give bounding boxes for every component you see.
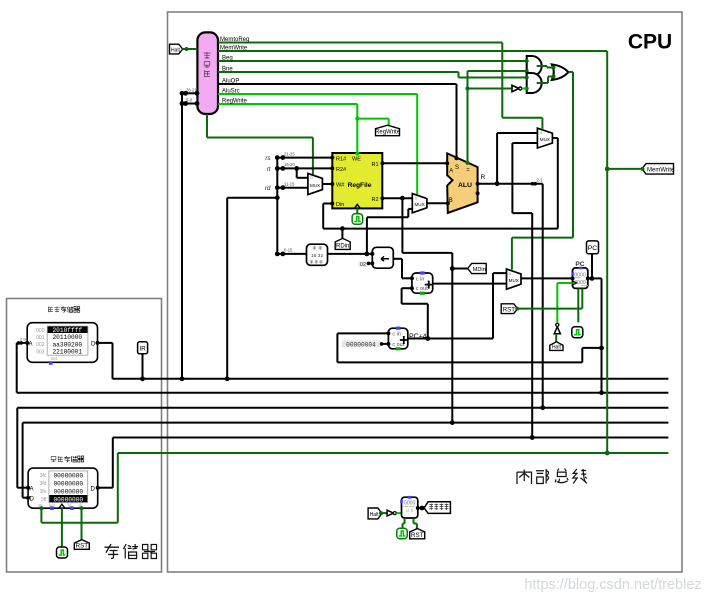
wire PCsrc mux out to PC (521, 277, 573, 279)
svg-text:001: 001 (36, 335, 45, 341)
sign extender 16-32 (307, 244, 328, 265)
wire counter reset (414, 518, 417, 529)
svg-text:MUX: MUX (509, 278, 519, 283)
svg-text:rd: rd (265, 185, 271, 192)
wire RAM clr to RST (81, 508, 83, 539)
svg-text:RST: RST (76, 542, 89, 549)
svg-text:00000000: 00000000 (53, 480, 83, 487)
wire OR out (branch taken) (512, 72, 573, 270)
wire imm up to B mux in1 (367, 209, 412, 254)
wire counter clock (403, 518, 405, 529)
constant 02 (shift amount) (359, 261, 372, 268)
svg-text:16-20: 16-20 (284, 162, 295, 167)
svg-text:rs: rs (265, 155, 270, 162)
wire AND2 out to OR (537, 75, 556, 84)
svg-text:RST: RST (411, 532, 424, 539)
adder PC+4 (386, 327, 426, 351)
svg-text:R2#: R2# (336, 167, 347, 173)
label 数据存储器 (data memory title) (51, 456, 84, 462)
node rs row (265, 151, 332, 162)
pin RST label (PC) (501, 304, 519, 314)
wire RegDst mux out to W# (322, 183, 332, 185)
svg-text:=: = (466, 167, 470, 173)
svg-text:R: R (481, 174, 486, 181)
wire shifter out to branch adder A (393, 259, 412, 279)
svg-text:000: 000 (36, 328, 45, 334)
AND gate (Bne & !zero) (525, 73, 542, 93)
svg-text:21-25: 21-25 (284, 151, 295, 156)
svg-text:MemWrite: MemWrite (220, 46, 248, 52)
pin Halt label (counter) (368, 508, 383, 519)
svg-text:RegWrite: RegWrite (375, 130, 401, 136)
svg-text:Bne: Bne (222, 67, 233, 73)
wire PC Q output (588, 276, 604, 395)
svg-text:002: 002 (36, 342, 45, 348)
svg-text:20110000: 20110000 (52, 334, 82, 341)
svg-text:R1#: R1# (336, 157, 347, 163)
svg-text:A: A (449, 169, 453, 175)
node rd row (265, 182, 308, 193)
svg-text:MemWrite: MemWrite (647, 167, 675, 173)
wire MemtoReg (218, 43, 542, 129)
control unit 控制器 (197, 32, 218, 114)
svg-text:c in: c in (392, 332, 400, 338)
svg-text:003: 003 (36, 349, 45, 355)
svg-text:ALU: ALU (458, 182, 472, 189)
wire bus row 4 (store data) (23, 422, 669, 424)
clock symbol (counter) (397, 528, 408, 539)
wire Beq (218, 60, 527, 62)
wire PC clock (577, 288, 579, 322)
svg-text:aa300200: aa300200 (52, 341, 82, 348)
wire control input column (180, 93, 185, 381)
probe RegWrite (375, 125, 401, 136)
label 存储器 (memory) (105, 544, 157, 559)
frame: CPU block (168, 12, 683, 572)
svg-text:sel: sel (51, 356, 57, 361)
pin Halt (input, top left) (170, 44, 183, 54)
svg-text:26-21: 26-21 (186, 87, 197, 92)
wire RegWrite (218, 104, 389, 154)
wire PC+4 adder output (408, 273, 507, 338)
svg-text:Halt: Halt (552, 344, 562, 350)
svg-text:R1: R1 (372, 162, 379, 168)
shifter shl2 (370, 247, 393, 268)
svg-text:ct 0: ct 0 (406, 508, 414, 513)
wire ROM A input from PC bus (17, 337, 28, 393)
wire RAM str from MemWrite row (41, 453, 117, 523)
wire NOT out to counter (396, 512, 401, 514)
svg-text:0000: 0000 (404, 501, 416, 507)
register PC (571, 261, 590, 288)
svg-text:5-0: 5-0 (186, 98, 193, 103)
svg-text:11-15: 11-15 (284, 182, 295, 187)
probe PC (587, 241, 599, 279)
wire RST to PC reset (518, 288, 583, 308)
svg-text:R2: R2 (372, 197, 379, 203)
svg-text:c in: c in (416, 277, 424, 283)
svg-text:3fc: 3fc (40, 473, 47, 479)
wire R1 to ALU A (382, 162, 447, 164)
wire NOT output (522, 88, 527, 90)
register file RegFile (330, 152, 384, 209)
wire bus row 5 (load data) (113, 437, 669, 439)
wire AND1 out to OR (537, 66, 556, 70)
clock symbol (RAM) (57, 547, 68, 558)
constant 00000004 (342, 340, 389, 348)
svg-text:CPU: CPU (628, 31, 672, 54)
svg-text:0-15: 0-15 (284, 248, 293, 253)
svg-text:W#: W# (336, 182, 345, 188)
wire RAM clock (61, 508, 63, 547)
NOT gate (zero inverter) (512, 85, 522, 91)
svg-text:Halt: Halt (171, 48, 181, 54)
wire bus row 3 (ALU result / data address) (17, 407, 668, 409)
wire PC+4 to branch adder B (402, 288, 431, 341)
wire ALU zero flag (465, 71, 526, 163)
svg-text:Din: Din (336, 202, 344, 208)
svg-text:00000000: 00000000 (53, 488, 83, 495)
mux writeback (MemtoReg) (537, 128, 552, 148)
svg-text:D: D (91, 486, 96, 492)
adder branch target (410, 271, 433, 294)
svg-text:RegFile: RegFile (348, 182, 372, 189)
OR gate (branch) (552, 64, 569, 80)
svg-text:PC: PC (588, 245, 597, 252)
svg-text:S: S (455, 165, 459, 171)
svg-text:A: A (30, 486, 34, 492)
svg-text:D: D (30, 496, 35, 502)
control left input taps with splitter (180, 87, 200, 106)
wire branch adder out to PCsrc mux (433, 283, 507, 285)
wire R2 to B mux (382, 196, 412, 201)
NOT gate (counter enable) (387, 510, 396, 516)
pin Halt label (PC) (550, 334, 563, 351)
svg-text:AluSrc: AluSrc (222, 89, 240, 95)
wire B mux out to ALU B (427, 202, 448, 204)
pin 总周期数 output label (418, 502, 451, 514)
svg-text:RST: RST (503, 306, 516, 313)
wire AluSrc (218, 94, 417, 195)
pin RST label (RAM) (74, 540, 89, 550)
svg-text:MUX: MUX (540, 137, 550, 142)
wire bus row 1 (instruction) (113, 378, 669, 380)
wire ROM D output to instruction bus (98, 343, 113, 379)
wire imm to extender (275, 248, 307, 257)
pin RDin label (335, 229, 350, 250)
wire rt branch to RegDst mux (297, 168, 308, 177)
ROM instruction memory (25, 323, 99, 365)
wire WB mux out to Din (323, 138, 558, 231)
svg-text:22100001: 22100001 (52, 349, 82, 356)
svg-text:02: 02 (360, 262, 366, 268)
svg-text:3fe: 3fe (39, 489, 46, 495)
svg-text:AluOP: AluOP (222, 79, 239, 85)
wire ALU result (478, 178, 545, 411)
wire control bottom output (RegDst) (207, 114, 313, 175)
counter 总周期数 (400, 496, 420, 518)
NOT gate (halt to enable) (554, 323, 560, 334)
pin RST label (counter) (410, 529, 425, 539)
wire RAM A from address bus (17, 408, 28, 488)
wire store data (R2 down to bus) (402, 198, 467, 425)
svg-text:rt: rt (267, 166, 271, 173)
wire instruction field spine (225, 158, 280, 382)
node rt row (267, 162, 333, 173)
svg-text:MUX: MUX (414, 202, 424, 207)
label 内部总线 (internal bus) (517, 469, 587, 485)
wire bus row 6 (MemWrite control) (118, 452, 669, 454)
svg-text:16 32: 16 32 (311, 253, 323, 259)
AND gate (Beq & zero) (525, 56, 542, 76)
probe IR (138, 342, 148, 381)
wire ALU result up to WB mux in0 (497, 133, 537, 184)
mux ALU-B (AluSrc) (412, 194, 427, 213)
svg-text:00000004: 00000004 (346, 341, 376, 348)
wire Halt to NOT (382, 512, 388, 514)
wire bus row 2 (PC address) (17, 392, 669, 394)
svg-text:2-1: 2-1 (537, 178, 544, 183)
pin MDin label (468, 263, 487, 273)
svg-text:2-9: 2-9 (20, 337, 27, 342)
wire Bne (218, 72, 527, 78)
mux PCsrc (branch) (507, 269, 522, 289)
svg-text:c out: c out (416, 286, 428, 292)
pin MemWrite (output) (641, 164, 675, 175)
svg-text:RDin: RDin (336, 243, 349, 249)
svg-text:2010ffff: 2010ffff (52, 327, 82, 334)
svg-text:00000000: 00000000 (53, 472, 83, 479)
wire RAM D-out to load bus (98, 438, 113, 488)
wire MemWrite (218, 51, 642, 455)
clock symbol (RegFile) (352, 208, 363, 224)
svg-text:c out: c out (392, 342, 404, 348)
svg-text:https://blog.csdn.net/treblez: https://blog.csdn.net/treblez (524, 577, 701, 593)
svg-text:Beq: Beq (222, 56, 233, 62)
label 指令存储器 (instruction memory title) (48, 307, 79, 313)
frame: memory block 存储器 (7, 299, 162, 573)
svg-text:3fd: 3fd (39, 481, 46, 487)
alu U-ALU (445, 153, 485, 213)
svg-text:RegWrite: RegWrite (222, 99, 248, 105)
wire PC row to PC+4 adder A (337, 333, 603, 362)
clock symbol (PC) (572, 327, 583, 338)
svg-text:MDin: MDin (473, 267, 486, 273)
svg-text:MemtoReg: MemtoReg (220, 37, 249, 43)
wire RAM D-in from store bus (23, 423, 29, 498)
wire extender out (328, 252, 373, 257)
svg-text:MUX: MUX (310, 183, 320, 188)
wire load data to WB mux in1 (512, 143, 537, 440)
svg-text:IR: IR (139, 345, 146, 352)
wire PC enable (halt) (557, 283, 572, 322)
mux RegDst (308, 173, 323, 194)
svg-text:Halt: Halt (370, 512, 380, 518)
svg-text:D: D (91, 342, 96, 348)
svg-text:WE: WE (352, 157, 361, 163)
wire AluOP (218, 84, 457, 158)
RAM data memory (26, 468, 100, 510)
wire Halt to control (182, 47, 197, 51)
